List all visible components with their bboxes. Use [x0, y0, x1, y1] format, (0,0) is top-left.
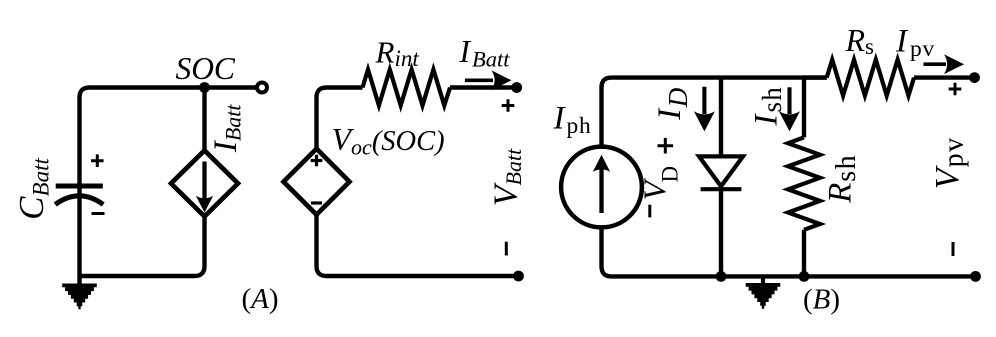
- node SOC junction dot: [199, 82, 210, 93]
- svg-text:Iph: Iph: [553, 100, 592, 139]
- positive terminal dot (B): [969, 72, 980, 83]
- wire shunt branch top: [802, 78, 806, 138]
- svg-text:D: D: [658, 166, 683, 183]
- svg-text:Ipv: Ipv: [895, 24, 935, 63]
- wire resistor to positive terminal: [450, 85, 512, 89]
- svg-text:CBatt: CBatt: [12, 158, 54, 220]
- svg-text:Rsh: Rsh: [823, 154, 863, 204]
- svg-text:Rint: Rint: [375, 35, 420, 72]
- diode minus sign (rotated: vertical bar): [648, 205, 651, 218]
- capacitor plus sign: [91, 154, 104, 167]
- svg-text:IBatt: IBatt: [208, 104, 246, 154]
- wire diode bottom: [719, 188, 723, 276]
- wire diode branch top: [719, 78, 723, 157]
- plus sign V_pv: [949, 83, 962, 96]
- I_ph arrow (up): [593, 155, 610, 213]
- svg-text:Ish: Ish: [749, 86, 788, 126]
- resistor R_int: [363, 70, 451, 106]
- junction dot diode-bottom: [716, 271, 727, 282]
- dependent current source I_Batt (diamond): [171, 150, 238, 216]
- bottom wire (A) left cell: [80, 216, 205, 276]
- minus sign V_Batt (rotated: vertical bar): [505, 242, 508, 256]
- positive terminal dot (A): [511, 82, 522, 93]
- svg-text:SOC: SOC: [175, 51, 235, 86]
- negative terminal dot (A): [513, 271, 524, 282]
- svg-text:Voc(SOC): Voc(SOC): [332, 121, 445, 160]
- svg-text:(B): (B): [803, 283, 840, 315]
- svg-text:(A): (A): [241, 283, 278, 315]
- svg-text:VBatt: VBatt: [488, 148, 527, 206]
- svg-text:ID: ID: [652, 87, 693, 121]
- capacitor C_Batt curved plate: [55, 196, 103, 205]
- wire current source bottom to rail: [602, 226, 976, 276]
- ground (B): [746, 283, 781, 309]
- V_oc plus sign inside: [311, 155, 323, 167]
- wire R_s to positive terminal: [914, 75, 970, 79]
- capacitor minus sign: [92, 212, 105, 215]
- I_pv current arrow: [924, 54, 965, 74]
- ground stub (B): [761, 276, 765, 284]
- junction dot shunt-bottom: [799, 271, 810, 282]
- negative terminal dot (B): [970, 271, 981, 282]
- capacitor C_Batt top plate: [56, 184, 103, 189]
- svg-text:Rs: Rs: [845, 22, 875, 59]
- resistor R_s: [827, 60, 914, 96]
- V_oc minus sign inside: [311, 201, 322, 204]
- wire top rail to R_s: [804, 75, 827, 79]
- resistor R_sh: [788, 137, 820, 229]
- wire SOC node down to current source: [202, 88, 206, 152]
- wire V_oc bottom to negative terminal: [317, 214, 519, 276]
- I_D current arrow (down): [694, 87, 715, 132]
- svg-text:IBatt: IBatt: [459, 34, 511, 71]
- wire V_oc up to resistor: [317, 88, 363, 150]
- dependent voltage source V_oc (diamond): [284, 149, 350, 215]
- current source arrow: [196, 162, 213, 213]
- wire shunt branch bottom: [802, 230, 806, 277]
- open terminal at SOC: [257, 83, 267, 93]
- svg-text:Vpv: Vpv: [929, 136, 970, 189]
- minus sign V_pv (rotated: vertical bar): [952, 242, 955, 256]
- current source I_ph (circle): [561, 147, 642, 228]
- wire top-left from capacitor to SOC node: [80, 88, 257, 187]
- diode plus sign (rotated label): [658, 138, 674, 154]
- I_sh current arrow (down): [779, 87, 800, 131]
- I_Batt current arrow: [465, 70, 512, 90]
- ground (A): [62, 284, 97, 310]
- wire current source to top rail: [602, 78, 827, 148]
- plus sign V_Batt: [502, 99, 515, 112]
- diode D: [699, 156, 743, 189]
- wire capacitor to ground: [77, 186, 81, 287]
